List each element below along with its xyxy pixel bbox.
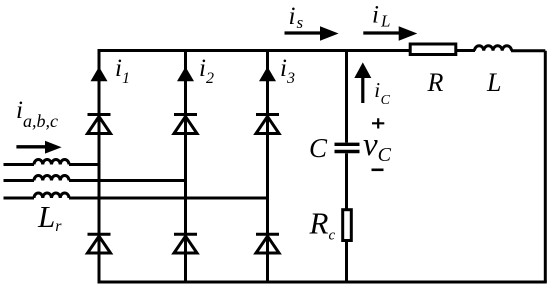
current arrow i_3 (259, 67, 276, 81)
diode D1 (upper, leg 1) (88, 115, 111, 134)
inductor L_r phase a (34, 160, 69, 165)
diode D6 (lower, leg 3) (256, 234, 279, 253)
diode D4 (lower, leg 1) (88, 234, 111, 253)
wire capacitor branch (345, 51, 348, 283)
inductor L (475, 46, 512, 51)
diode D5 (lower, leg 2) (174, 234, 197, 253)
inductor L_r phase b (34, 176, 69, 181)
plus sign (v_C polarity) (372, 118, 384, 128)
diode D2 (upper, leg 2) (174, 115, 197, 134)
resistor R (410, 44, 456, 55)
current arrow i_L (363, 26, 417, 40)
current arrow i_1 (91, 67, 108, 81)
wire phase c line (4, 197, 268, 200)
minus sign (v_C polarity) (372, 169, 384, 172)
wire rectifier leg 3 (266, 49, 269, 282)
wire phase b line (4, 179, 186, 182)
inductor L_r phase c (34, 193, 69, 198)
current arrow i_s (285, 26, 339, 40)
resistor R_c (343, 210, 352, 241)
wire bottom bus (98, 281, 547, 284)
wire phase a line (4, 163, 100, 166)
current arrow i_2 (177, 67, 194, 81)
diode D3 (upper, leg 3) (256, 115, 279, 134)
wire rectifier leg 2 (184, 49, 187, 282)
wire rectifier leg 1 (98, 49, 101, 282)
svg-text:L: L (486, 68, 501, 97)
wire right edge (544, 51, 547, 282)
svg-text:R: R (427, 68, 444, 97)
wire top bus (99, 49, 545, 52)
svg-text:C: C (309, 133, 328, 163)
capacitor C (335, 144, 360, 151)
current arrow i_C (354, 62, 371, 103)
current arrow i_abc (16, 141, 61, 154)
